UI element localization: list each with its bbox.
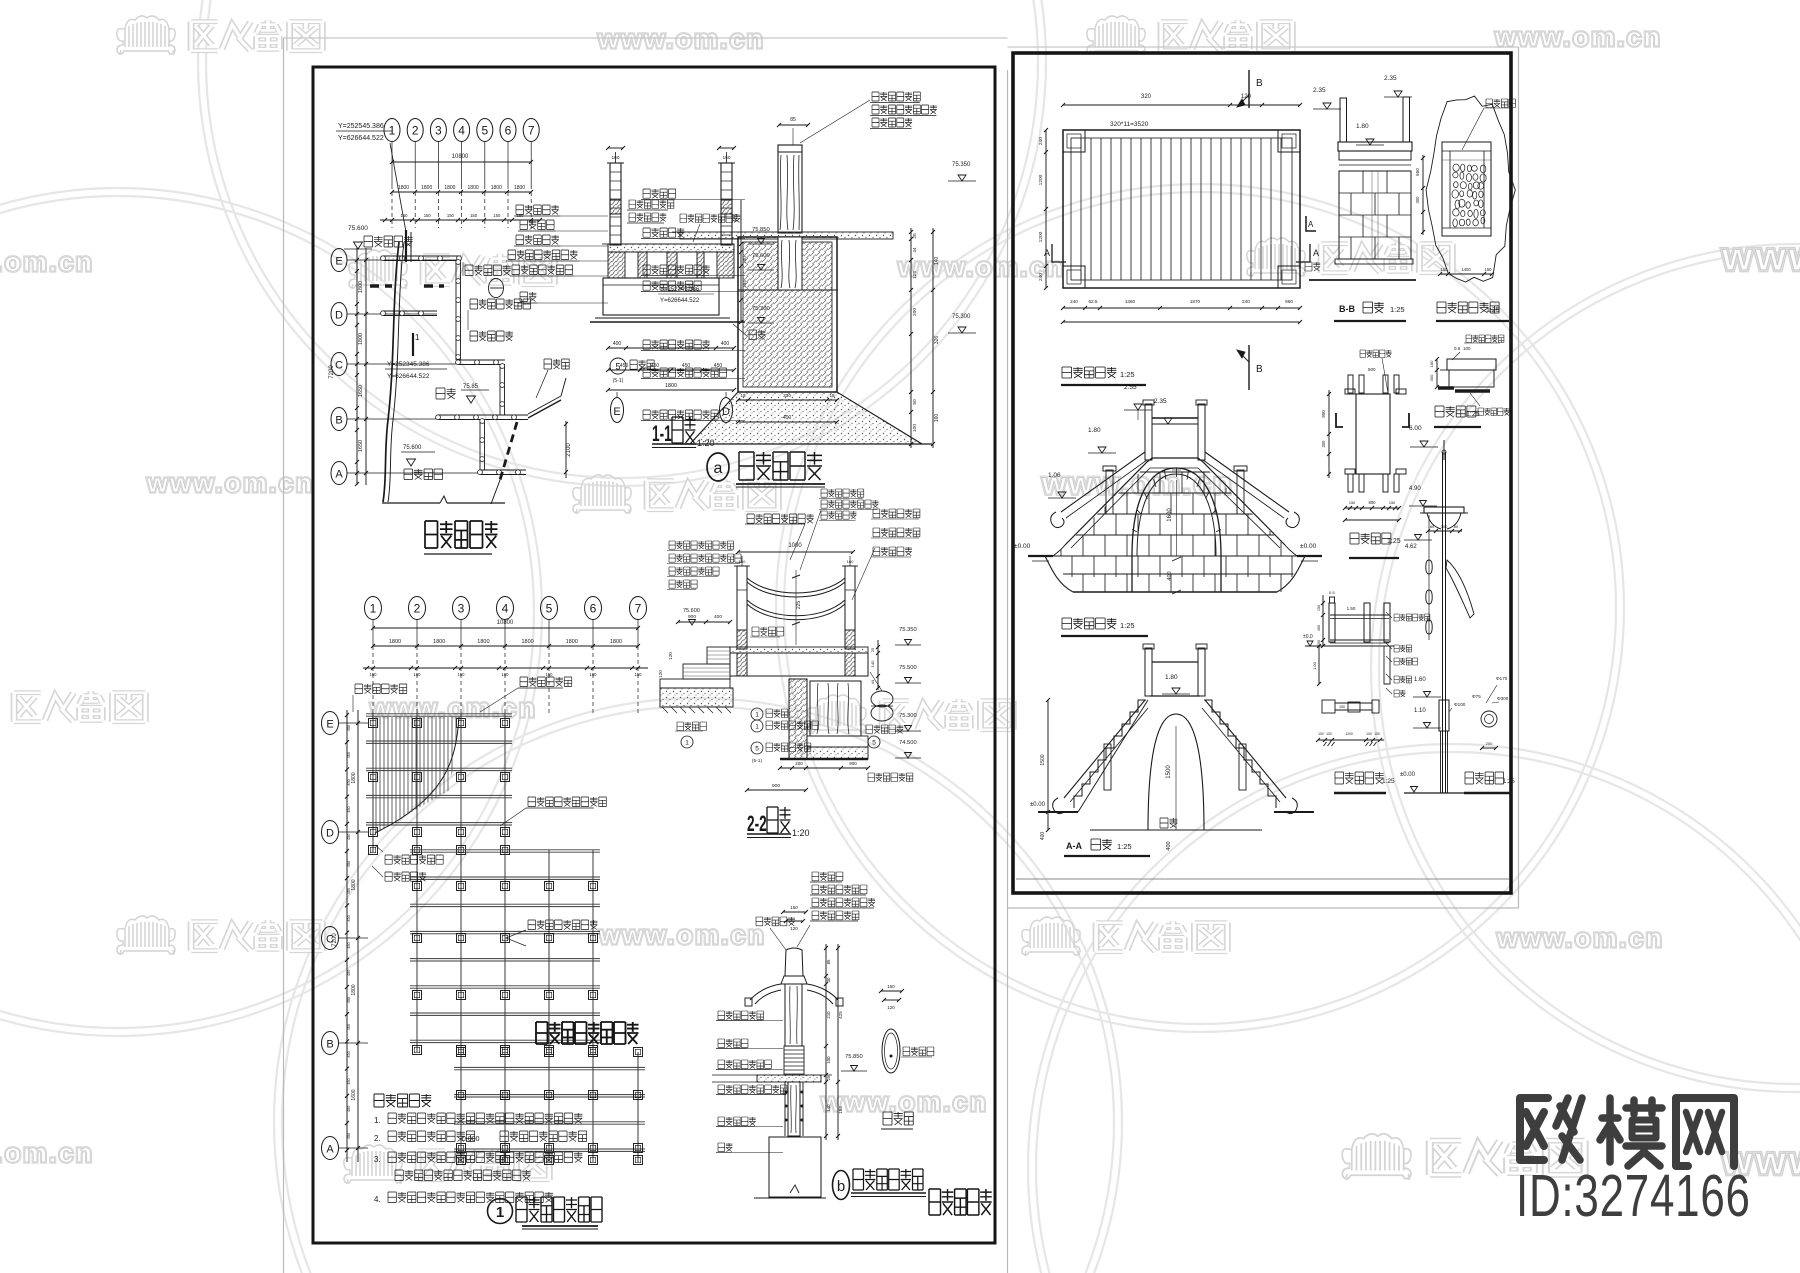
- svg-text:50: 50: [912, 399, 918, 405]
- svg-text:1800: 1800: [566, 639, 578, 645]
- svg-text:225: 225: [796, 601, 802, 610]
- svg-text:B: B: [1256, 78, 1263, 89]
- svg-text:Y=626644.522: Y=626644.522: [660, 298, 700, 304]
- svg-text:www.om.cn: www.om.cn: [1496, 923, 1664, 953]
- svg-text:450: 450: [347, 1024, 351, 1030]
- svg-text:1:20: 1:20: [792, 828, 810, 838]
- svg-text:900: 900: [1321, 410, 1326, 418]
- svg-text:100: 100: [1326, 732, 1332, 736]
- plan: curved bridge (qu qiao ping mian tu): [329, 119, 572, 555]
- svg-text:1:25: 1:25: [1382, 778, 1395, 785]
- svg-text:150: 150: [447, 213, 455, 218]
- svg-text:450: 450: [347, 861, 351, 867]
- svg-text:2: 2: [412, 124, 419, 138]
- svg-text:900: 900: [772, 783, 780, 789]
- svg-text:450: 450: [347, 834, 351, 840]
- svg-text:2.35: 2.35: [1384, 75, 1397, 82]
- svg-text:7: 7: [528, 124, 535, 138]
- stone arch bridge elevation: [1014, 384, 1322, 636]
- svg-text:75.350: 75.350: [899, 627, 917, 633]
- svg-text:150: 150: [502, 672, 510, 677]
- svg-text:3.: 3.: [374, 1155, 381, 1164]
- svg-text:E: E: [335, 256, 342, 268]
- svg-text:1800: 1800: [358, 281, 364, 293]
- svg-text:240: 240: [1070, 299, 1078, 304]
- svg-text:320*11=3520: 320*11=3520: [1110, 121, 1149, 128]
- svg-text:4.: 4.: [374, 1195, 381, 1204]
- svg-text:6.00: 6.00: [1409, 425, 1422, 432]
- svg-text:1800: 1800: [351, 984, 357, 995]
- svg-text:150: 150: [1441, 267, 1449, 272]
- svg-text:300: 300: [1415, 196, 1420, 204]
- svg-text:www.om.cn: www.om.cn: [146, 468, 314, 498]
- svg-text:www.om.cn: www.om.cn: [1721, 236, 1800, 279]
- svg-text:400: 400: [714, 614, 722, 620]
- svg-text:200: 200: [1486, 741, 1493, 746]
- svg-text:125: 125: [912, 271, 918, 279]
- svg-text:160: 160: [739, 559, 746, 564]
- svg-text:A: A: [326, 1144, 334, 1156]
- svg-text:A: A: [1313, 248, 1319, 258]
- svg-text:3: 3: [435, 124, 442, 138]
- svg-text:80: 80: [1430, 524, 1435, 529]
- svg-text:1800: 1800: [444, 185, 455, 191]
- svg-text:±0.0: ±0.0: [1303, 634, 1313, 640]
- svg-text:5: 5: [615, 362, 620, 372]
- svg-text:120: 120: [1241, 94, 1252, 100]
- svg-text:320: 320: [1141, 94, 1152, 100]
- svg-text:1600: 1600: [351, 1089, 357, 1100]
- svg-text:960: 960: [1285, 299, 1293, 304]
- svg-text:B-B: B-B: [1339, 304, 1355, 314]
- svg-text:Φ100: Φ100: [1454, 702, 1466, 707]
- svg-text:150: 150: [790, 905, 798, 910]
- svg-text:Y=626644.522: Y=626644.522: [387, 373, 430, 380]
- svg-text:Φ75: Φ75: [1472, 694, 1481, 699]
- svg-text:1800: 1800: [468, 185, 479, 191]
- svg-text:300: 300: [1321, 440, 1326, 448]
- svg-text:Y=252545.386: Y=252545.386: [338, 123, 384, 130]
- svg-text:D: D: [326, 828, 334, 840]
- svg-text:450: 450: [347, 1106, 351, 1112]
- svg-text:1800: 1800: [421, 185, 432, 191]
- svg-text:B: B: [335, 415, 342, 427]
- big logo: ou mo wang + ID: [1516, 1098, 1751, 1230]
- svg-text:1800: 1800: [398, 185, 409, 191]
- big title: curved bridge detail: [929, 1189, 992, 1215]
- svg-text:450: 450: [1317, 625, 1321, 631]
- svg-text:450: 450: [347, 1133, 351, 1139]
- svg-text:1: 1: [415, 333, 420, 342]
- svg-text:150: 150: [493, 213, 501, 218]
- svg-text:±0.00: ±0.00: [1400, 772, 1416, 778]
- svg-text:400: 400: [1040, 832, 1046, 841]
- svg-text:1.80: 1.80: [1088, 427, 1101, 434]
- svg-text:1800: 1800: [477, 639, 489, 645]
- svg-text:75.850: 75.850: [845, 1054, 863, 1060]
- svg-text:650: 650: [1415, 168, 1420, 176]
- svg-text:7200: 7200: [332, 933, 338, 947]
- svg-text:450: 450: [347, 997, 351, 1003]
- svg-text:1800: 1800: [665, 383, 677, 389]
- svg-text:1500: 1500: [1166, 765, 1172, 779]
- svg-text:150: 150: [1317, 605, 1321, 611]
- svg-text:1500: 1500: [1040, 754, 1046, 765]
- svg-text:150: 150: [1389, 501, 1395, 505]
- svg-text:425: 425: [838, 1011, 843, 1019]
- svg-text:400: 400: [1167, 571, 1173, 580]
- section 2-2: [658, 489, 921, 838]
- svg-text:450: 450: [347, 888, 351, 894]
- svg-text:160: 160: [847, 559, 854, 564]
- svg-text:±0.00: ±0.00: [1300, 543, 1317, 550]
- membrane pavilion grid plan: [322, 597, 649, 1165]
- svg-text:100: 100: [1366, 732, 1372, 736]
- svg-text:1000: 1000: [788, 543, 802, 549]
- svg-text:www.om.cn: www.om.cn: [0, 1138, 94, 1168]
- svg-text:E: E: [613, 406, 620, 418]
- svg-text:210: 210: [826, 1011, 831, 1019]
- brick pier detail (a): [610, 92, 976, 487]
- svg-text:1.60: 1.60: [1414, 677, 1426, 683]
- svg-text:300: 300: [1429, 374, 1434, 381]
- svg-text:1800: 1800: [514, 185, 525, 191]
- svg-text:1800: 1800: [389, 639, 401, 645]
- svg-text:450: 450: [347, 752, 351, 758]
- svg-text:85: 85: [790, 117, 796, 123]
- svg-text:0.6: 0.6: [1454, 346, 1461, 351]
- svg-text:900: 900: [849, 761, 857, 766]
- svg-text:2: 2: [414, 602, 421, 616]
- svg-text:A: A: [1308, 220, 1314, 229]
- svg-text:425: 425: [733, 214, 739, 223]
- svg-text:150: 150: [458, 672, 466, 677]
- svg-text:150: 150: [401, 213, 409, 218]
- svg-text:450: 450: [347, 806, 351, 812]
- svg-text:1: 1: [389, 124, 396, 138]
- svg-text:D: D: [335, 310, 343, 322]
- design notes: [374, 1094, 587, 1204]
- svg-text:75.500: 75.500: [899, 665, 917, 671]
- svg-text:4: 4: [458, 124, 465, 138]
- svg-text:6: 6: [505, 124, 512, 138]
- svg-text:4.90: 4.90: [1409, 486, 1421, 492]
- svg-text:1: 1: [755, 724, 759, 731]
- stone railing detail: [1303, 590, 1430, 793]
- svg-text:150: 150: [1485, 267, 1493, 272]
- svg-text:1.80: 1.80: [1165, 674, 1178, 681]
- svg-text:450: 450: [347, 942, 351, 948]
- svg-text:15: 15: [740, 393, 746, 398]
- svg-text:6: 6: [590, 602, 597, 616]
- svg-text:1-1: 1-1: [652, 421, 672, 446]
- right sheet paper: [1008, 46, 1519, 48]
- svg-text:1.: 1.: [374, 1116, 381, 1125]
- svg-text:1: 1: [755, 712, 759, 719]
- svg-text:1: 1: [685, 740, 689, 747]
- svg-text:150: 150: [370, 672, 378, 677]
- svg-text:400: 400: [613, 341, 622, 347]
- svg-text:150: 150: [1339, 705, 1345, 709]
- svg-text:75.600: 75.600: [683, 608, 700, 614]
- svg-text:326: 326: [934, 336, 940, 345]
- beam layout title (1): [488, 1197, 603, 1229]
- svg-text:450: 450: [347, 915, 351, 921]
- svg-text:184: 184: [838, 1106, 843, 1114]
- svg-text:74.500: 74.500: [899, 740, 917, 746]
- svg-text:Φ300: Φ300: [1497, 696, 1509, 701]
- svg-text:(5-1): (5-1): [613, 378, 624, 384]
- svg-text:a: a: [714, 460, 723, 477]
- svg-text:1400: 1400: [1461, 267, 1471, 272]
- svg-text:150: 150: [424, 213, 432, 218]
- svg-text:75.600: 75.600: [403, 445, 422, 451]
- svg-text:450: 450: [347, 1078, 351, 1084]
- svg-text:1600: 1600: [1167, 508, 1173, 522]
- svg-text:1360: 1360: [1125, 299, 1136, 304]
- svg-text:240: 240: [1242, 299, 1250, 304]
- svg-text:B: B: [1256, 364, 1263, 375]
- svg-text:44: 44: [912, 247, 918, 253]
- svg-text:180: 180: [1429, 360, 1434, 367]
- svg-text:15: 15: [829, 393, 835, 398]
- svg-text:±0.00: ±0.00: [1014, 543, 1031, 550]
- svg-text:5: 5: [546, 602, 553, 616]
- svg-text:80: 80: [1454, 524, 1459, 529]
- svg-text:400: 400: [783, 415, 792, 421]
- svg-text:1:25: 1:25: [1390, 305, 1405, 314]
- svg-text:1:25: 1:25: [1503, 779, 1515, 785]
- svg-text:1:25: 1:25: [1387, 538, 1401, 545]
- tree pit paving plan: [1415, 96, 1516, 321]
- svg-text:2.35: 2.35: [1154, 398, 1167, 405]
- left sheet frame: [313, 67, 995, 1243]
- svg-text:150: 150: [635, 672, 643, 677]
- svg-text:±0.00: ±0.00: [1030, 802, 1046, 808]
- svg-text:Y=626644.522: Y=626644.522: [338, 135, 384, 142]
- svg-text:1800: 1800: [433, 639, 445, 645]
- svg-text:1200: 1200: [1038, 231, 1044, 242]
- svg-text:Φ170: Φ170: [1496, 676, 1508, 681]
- wood post detail (b): [712, 872, 934, 1200]
- left sheet paper: [283, 38, 285, 1273]
- svg-text:(5-1): (5-1): [752, 758, 763, 764]
- svg-text:1:25: 1:25: [1486, 307, 1500, 314]
- svg-text:1870: 1870: [1190, 299, 1201, 304]
- svg-text:1.06: 1.06: [1048, 472, 1061, 479]
- svg-text:www.om.cn: www.om.cn: [0, 247, 94, 277]
- svg-text:1800: 1800: [521, 639, 533, 645]
- svg-text:150: 150: [414, 672, 422, 677]
- svg-text:240: 240: [1038, 273, 1044, 281]
- svg-text:1:25: 1:25: [1117, 842, 1132, 851]
- svg-text:1.00: 1.00: [1312, 661, 1317, 670]
- svg-text:44: 44: [870, 679, 875, 684]
- svg-text:450: 450: [347, 779, 351, 785]
- svg-text:140: 140: [934, 257, 940, 266]
- svg-text:2.: 2.: [374, 1134, 381, 1143]
- svg-text:www.om.cn: www.om.cn: [369, 693, 537, 723]
- svg-text:150: 150: [722, 155, 730, 161]
- svg-text:150: 150: [590, 672, 598, 677]
- svg-text:1:25: 1:25: [1120, 370, 1135, 379]
- svg-text:100: 100: [826, 1056, 831, 1064]
- svg-text:www.om.cn: www.om.cn: [1494, 22, 1662, 52]
- svg-text:1:25: 1:25: [1466, 411, 1480, 418]
- svg-text:0.000: 0.000: [462, 1136, 480, 1143]
- svg-text:100: 100: [1463, 346, 1471, 351]
- svg-text:30: 30: [826, 977, 831, 982]
- svg-text:100: 100: [1318, 732, 1324, 736]
- svg-text:1800: 1800: [351, 879, 357, 890]
- flagpole detail: [1400, 425, 1515, 793]
- tree pit plan small: [1321, 350, 1409, 558]
- section A-A stair bridge: [1030, 644, 1314, 856]
- svg-text:75.85: 75.85: [463, 384, 479, 390]
- svg-text:800: 800: [1369, 500, 1377, 505]
- svg-text:b: b: [837, 1178, 845, 1195]
- svg-text:300: 300: [1441, 524, 1448, 529]
- svg-text:150: 150: [887, 984, 895, 989]
- svg-text:75.600: 75.600: [348, 225, 368, 232]
- svg-text:240: 240: [1038, 137, 1044, 145]
- small stone bridge plan: [1038, 70, 1319, 390]
- svg-text:www.om.cn: www.om.cn: [597, 24, 765, 54]
- svg-text:5: 5: [481, 124, 488, 138]
- svg-text:75.350: 75.350: [952, 162, 971, 168]
- svg-text:1800: 1800: [351, 772, 357, 783]
- watermark logo stamps: [117, 16, 322, 55]
- svg-text:450: 450: [347, 970, 351, 976]
- svg-text:1: 1: [496, 1204, 504, 1221]
- svg-text:200: 200: [912, 308, 918, 316]
- svg-text:140: 140: [826, 1104, 831, 1112]
- svg-text:5: 5: [872, 740, 876, 747]
- svg-text:4: 4: [502, 602, 509, 616]
- svg-text:B: B: [326, 1039, 333, 1051]
- svg-text:7: 7: [635, 602, 642, 616]
- svg-text:85: 85: [826, 959, 831, 964]
- svg-text:2100: 2100: [566, 443, 572, 457]
- svg-text:E: E: [326, 719, 333, 731]
- svg-text:120: 120: [790, 926, 798, 931]
- svg-text:150: 150: [546, 672, 554, 677]
- svg-text:450: 450: [620, 363, 629, 369]
- svg-text:1200: 1200: [1345, 732, 1353, 736]
- svg-text:10800: 10800: [497, 620, 514, 626]
- svg-text:75.300: 75.300: [899, 713, 917, 719]
- svg-text:1200: 1200: [1038, 174, 1044, 185]
- svg-text:A: A: [1044, 248, 1050, 258]
- svg-text:25: 25: [826, 1075, 831, 1080]
- svg-text:2.35: 2.35: [1313, 87, 1326, 94]
- svg-text:100: 100: [912, 424, 918, 432]
- svg-text:A: A: [335, 469, 343, 481]
- svg-text:A-A: A-A: [1066, 841, 1082, 851]
- svg-text:1800: 1800: [358, 333, 364, 345]
- svg-text:400: 400: [721, 341, 730, 347]
- svg-text:120: 120: [658, 670, 663, 678]
- svg-text:500: 500: [1368, 367, 1376, 372]
- svg-text:25: 25: [912, 233, 918, 239]
- svg-text:ID:3274166: ID:3274166: [1516, 1164, 1751, 1230]
- svg-text:1.10: 1.10: [1414, 708, 1426, 714]
- svg-text:1:25: 1:25: [1120, 621, 1135, 630]
- svg-text:150: 150: [470, 213, 478, 218]
- svg-text:200: 200: [795, 761, 803, 766]
- svg-text:62.5: 62.5: [1089, 299, 1098, 304]
- section 1-1: [506, 146, 774, 448]
- svg-text:10800: 10800: [452, 154, 469, 160]
- svg-text:120: 120: [887, 1005, 895, 1010]
- svg-text:400: 400: [1166, 841, 1172, 850]
- svg-text:3: 3: [458, 602, 465, 616]
- svg-text:0.5: 0.5: [1329, 590, 1335, 595]
- svg-text:1800: 1800: [610, 639, 622, 645]
- svg-text:450: 450: [347, 725, 351, 731]
- tree pit section: [1429, 335, 1509, 427]
- svg-text:120: 120: [668, 652, 673, 660]
- svg-text:140: 140: [870, 660, 875, 667]
- svg-text:160: 160: [611, 155, 619, 161]
- svg-text:Y=252345.386: Y=252345.386: [387, 361, 430, 368]
- svg-text:1.50: 1.50: [1347, 606, 1356, 611]
- right sheet frame: [1013, 53, 1511, 893]
- svg-text:150: 150: [1349, 501, 1355, 505]
- svg-text:450: 450: [347, 1051, 351, 1057]
- svg-text:C: C: [335, 360, 343, 372]
- svg-text:330: 330: [783, 393, 791, 399]
- svg-text:1: 1: [370, 602, 377, 616]
- svg-text:2-2: 2-2: [747, 811, 767, 836]
- svg-text:25: 25: [870, 647, 875, 652]
- svg-text:1800: 1800: [491, 185, 502, 191]
- svg-text:7200: 7200: [329, 365, 335, 379]
- svg-text:1650: 1650: [358, 440, 364, 452]
- svg-text:100: 100: [1374, 732, 1380, 736]
- svg-text:www.om.cn: www.om.cn: [598, 920, 766, 950]
- svg-text:160: 160: [934, 414, 940, 423]
- svg-text:150: 150: [517, 213, 525, 218]
- svg-text:75.300: 75.300: [952, 314, 971, 320]
- svg-text:2.55: 2.55: [1124, 384, 1137, 391]
- svg-text:1.80: 1.80: [1356, 123, 1369, 130]
- svg-text:1650: 1650: [358, 385, 364, 397]
- svg-text:4.62: 4.62: [1405, 544, 1417, 550]
- svg-text:5: 5: [755, 746, 759, 753]
- section B-B: [1305, 75, 1416, 321]
